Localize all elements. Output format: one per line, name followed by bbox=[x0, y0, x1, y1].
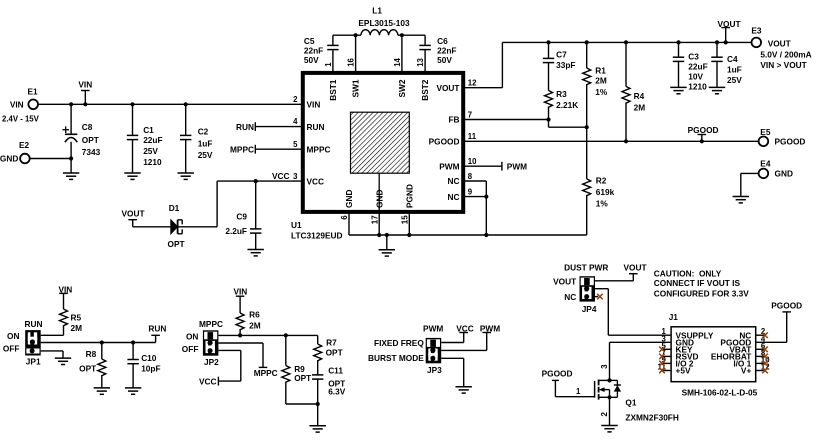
svg-text:E4: E4 bbox=[760, 158, 771, 168]
svg-text:PWM: PWM bbox=[423, 323, 443, 333]
svg-text:CAUTION: ONLY: CAUTION: ONLY bbox=[654, 269, 722, 279]
svg-text:50V: 50V bbox=[437, 55, 452, 65]
svg-text:PWM: PWM bbox=[439, 161, 459, 171]
svg-text:R8: R8 bbox=[86, 349, 97, 359]
svg-text:3: 3 bbox=[600, 364, 609, 369]
svg-text:10: 10 bbox=[468, 157, 477, 166]
svg-text:OPT: OPT bbox=[168, 239, 185, 249]
terminal E3 VOUT bbox=[751, 26, 811, 70]
svg-text:2M: 2M bbox=[71, 323, 83, 333]
svg-text:5.0V / 200mA: 5.0V / 200mA bbox=[760, 49, 811, 59]
ground under C4 bbox=[709, 87, 725, 93]
wire PGOOD net pin11 bbox=[464, 139, 759, 143]
svg-text:25V: 25V bbox=[143, 146, 158, 156]
svg-text:SW1: SW1 bbox=[351, 79, 361, 97]
svg-text:VIN > VOUT: VIN > VOUT bbox=[760, 60, 806, 70]
svg-text:V+: V+ bbox=[741, 366, 752, 376]
svg-text:BST1: BST1 bbox=[328, 79, 338, 101]
wire PWM stub pin10 bbox=[464, 161, 527, 171]
svg-text:MPPC: MPPC bbox=[307, 144, 331, 154]
wire RUN stub pin4 bbox=[236, 122, 302, 132]
svg-text:RUN: RUN bbox=[148, 324, 166, 334]
svg-text:22uF: 22uF bbox=[143, 135, 162, 145]
svg-text:VOUT: VOUT bbox=[717, 19, 740, 29]
U1 pin numbers top rotated bbox=[324, 57, 425, 66]
ground under C8 bbox=[63, 173, 79, 179]
svg-text:+5V: +5V bbox=[676, 366, 691, 376]
terminal E1 VIN bbox=[2, 87, 40, 124]
net symbol PGOOD at Q1 gate bbox=[542, 369, 595, 397]
svg-text:PGOOD: PGOOD bbox=[688, 125, 719, 135]
svg-text:VCC: VCC bbox=[456, 323, 474, 333]
U1 pin numbers left bbox=[293, 95, 298, 181]
terminal E4 GND bbox=[741, 158, 793, 196]
ground under C2 bbox=[178, 173, 194, 179]
wire JP3 middle pin PWM net bbox=[441, 323, 500, 350]
ground under R8 bbox=[94, 388, 110, 394]
capacitor C2 bbox=[180, 104, 213, 173]
svg-text:VCC: VCC bbox=[307, 176, 325, 186]
wire VOUT net top rail bbox=[464, 40, 752, 87]
ground under C11 R9 bbox=[310, 426, 326, 432]
svg-text:JP4: JP4 bbox=[582, 304, 597, 314]
svg-text:12: 12 bbox=[468, 79, 477, 88]
wire NC pins 8 9 bbox=[464, 181, 488, 237]
svg-text:C1: C1 bbox=[143, 125, 154, 135]
wire MPPC net JP2 middle bbox=[218, 343, 263, 367]
U1 pin numbers bottom rotated bbox=[340, 215, 409, 224]
svg-text:11: 11 bbox=[468, 132, 477, 141]
wire VIN net bbox=[38, 102, 302, 106]
capacitor C9 bbox=[225, 181, 261, 249]
svg-text:GND: GND bbox=[0, 154, 18, 164]
svg-text:2.4V - 15V: 2.4V - 15V bbox=[2, 115, 40, 124]
svg-text:C10: C10 bbox=[141, 353, 157, 363]
svg-text:ON: ON bbox=[7, 331, 19, 341]
svg-text:C8: C8 bbox=[82, 122, 93, 132]
wire JP2 bottom pin to VCC bbox=[199, 350, 241, 386]
op-amp U1 LTC3129EUD body bbox=[291, 73, 463, 241]
wire JP4 top pin to VOUT bbox=[595, 262, 647, 280]
wire to ground JP2 branch bbox=[317, 404, 319, 426]
svg-text:7: 7 bbox=[468, 110, 472, 119]
svg-text:2M: 2M bbox=[595, 76, 607, 86]
jumper JP1 bbox=[3, 319, 43, 367]
svg-text:4: 4 bbox=[293, 117, 298, 126]
svg-text:FB: FB bbox=[448, 115, 459, 125]
caution note text bbox=[654, 269, 749, 299]
svg-text:RUN: RUN bbox=[25, 319, 43, 329]
svg-text:9: 9 bbox=[468, 187, 473, 196]
svg-text:22nF: 22nF bbox=[304, 46, 323, 56]
capacitor C1 bbox=[127, 104, 163, 173]
ground under JP1 bbox=[55, 358, 71, 364]
J1 wire pin3 to Q1 drain bbox=[610, 342, 672, 380]
resistor R9 bbox=[282, 335, 320, 406]
wire JP2 top pin / R7 top bbox=[218, 333, 317, 344]
ground under JP3 bbox=[456, 387, 472, 393]
svg-text:2.21K: 2.21K bbox=[556, 100, 578, 110]
capacitor C10 bbox=[127, 343, 160, 388]
svg-text:2: 2 bbox=[293, 95, 298, 104]
svg-text:Q1: Q1 bbox=[625, 398, 636, 408]
svg-text:1%: 1% bbox=[596, 199, 609, 209]
svg-text:DUST PWR: DUST PWR bbox=[564, 262, 608, 272]
svg-text:GND: GND bbox=[344, 190, 354, 208]
svg-text:6: 6 bbox=[340, 215, 349, 220]
svg-text:1%: 1% bbox=[595, 87, 608, 97]
net symbol VOUT top bbox=[717, 19, 740, 43]
svg-text:C9: C9 bbox=[236, 212, 247, 222]
ground under Q1 bbox=[601, 426, 617, 432]
svg-text:5: 5 bbox=[293, 140, 298, 149]
svg-text:2.2uF: 2.2uF bbox=[225, 226, 247, 236]
svg-text:C5: C5 bbox=[304, 36, 315, 46]
svg-text:FIXED FREQ: FIXED FREQ bbox=[374, 338, 424, 348]
svg-text:1uF: 1uF bbox=[727, 65, 742, 75]
svg-text:VIN: VIN bbox=[307, 100, 321, 110]
svg-text:E2: E2 bbox=[19, 140, 30, 150]
svg-text:OPT: OPT bbox=[294, 373, 311, 383]
svg-text:50V: 50V bbox=[304, 55, 319, 65]
J1 nc stubs left bbox=[659, 347, 671, 374]
svg-text:PGOOD: PGOOD bbox=[429, 137, 460, 147]
net symbol VIN at R6 bbox=[233, 287, 247, 313]
wire JP4 middle pin to J1 pin1 bbox=[595, 289, 608, 336]
capacitor C7 bbox=[543, 42, 576, 90]
wire BST1-SW1 top bbox=[333, 33, 358, 37]
svg-text:3: 3 bbox=[293, 172, 298, 181]
svg-text:16: 16 bbox=[347, 57, 356, 66]
capacitor C11 bbox=[312, 365, 346, 404]
svg-text:R3: R3 bbox=[556, 89, 567, 99]
capacitor C6 bbox=[419, 35, 456, 71]
svg-text:7343: 7343 bbox=[82, 147, 101, 157]
svg-text:GND: GND bbox=[374, 190, 384, 208]
terminal E5 PGOOD bbox=[759, 127, 806, 146]
wire SW1 bbox=[355, 35, 357, 71]
jumper JP4 bbox=[553, 262, 608, 314]
ground under C9 bbox=[248, 250, 264, 256]
svg-text:PWM: PWM bbox=[480, 323, 500, 333]
svg-text:OPT: OPT bbox=[326, 348, 343, 358]
svg-text:C3: C3 bbox=[688, 52, 699, 62]
svg-text:R6: R6 bbox=[249, 310, 260, 320]
svg-text:NC: NC bbox=[564, 292, 576, 302]
wire E2 to C8 gnd bbox=[30, 156, 73, 173]
svg-text:CONNECT IF VOUT IS: CONNECT IF VOUT IS bbox=[654, 278, 741, 288]
svg-text:C6: C6 bbox=[437, 36, 448, 46]
svg-text:10V: 10V bbox=[688, 72, 703, 82]
svg-text:VOUT: VOUT bbox=[623, 262, 646, 272]
svg-text:VOUT: VOUT bbox=[768, 39, 791, 49]
svg-text:OPT: OPT bbox=[82, 135, 99, 145]
J1 nc stubs right bbox=[756, 332, 768, 373]
ground under E4 bbox=[733, 197, 749, 203]
net symbol RUN bbox=[148, 324, 166, 343]
svg-text:1210: 1210 bbox=[143, 157, 162, 167]
svg-text:1uF: 1uF bbox=[198, 138, 213, 148]
svg-text:L1: L1 bbox=[372, 5, 382, 15]
svg-text:NC: NC bbox=[448, 176, 460, 186]
svg-text:JP1: JP1 bbox=[26, 356, 41, 366]
svg-text:MPPC: MPPC bbox=[254, 368, 278, 378]
svg-text:CONFIGURED FOR 3.3V: CONFIGURED FOR 3.3V bbox=[654, 289, 749, 299]
svg-text:MPPC: MPPC bbox=[199, 319, 223, 329]
wire Q1 source to gnd bbox=[609, 397, 611, 425]
svg-text:C4: C4 bbox=[727, 54, 738, 64]
svg-text:OFF: OFF bbox=[3, 343, 20, 353]
wire JP3 top pin to VCC bbox=[441, 323, 474, 342]
svg-text:VOUT: VOUT bbox=[553, 277, 576, 287]
capacitor C8 bbox=[62, 104, 100, 158]
svg-text:22nF: 22nF bbox=[437, 46, 456, 56]
U1 pin labels bottom rotated bbox=[344, 184, 414, 208]
svg-text:2M: 2M bbox=[249, 320, 261, 330]
wire JP1 bottom pin to gnd bbox=[41, 351, 63, 358]
svg-text:8: 8 bbox=[468, 172, 473, 181]
ground under C3 bbox=[670, 87, 686, 93]
svg-text:PWM: PWM bbox=[507, 161, 527, 171]
svg-text:C7: C7 bbox=[556, 50, 567, 60]
resistor R7 bbox=[314, 337, 343, 375]
wire JP3 bottom pin to gnd bbox=[441, 358, 464, 386]
J1 wire pin4 PGOOD bbox=[756, 301, 802, 343]
svg-text:R2: R2 bbox=[596, 176, 607, 186]
wire RUN net JP1 middle bbox=[41, 340, 156, 344]
JP4 NC pin x bbox=[595, 294, 603, 300]
J1 wire pin1 bbox=[608, 334, 671, 336]
resistor R6 bbox=[236, 310, 261, 336]
svg-text:2: 2 bbox=[600, 412, 609, 417]
wire ground bus under U1 bbox=[349, 213, 587, 250]
svg-text:33pF: 33pF bbox=[556, 60, 575, 70]
resistor R5 bbox=[60, 309, 83, 335]
capacitor C5 bbox=[304, 35, 339, 71]
svg-text:C11: C11 bbox=[328, 365, 343, 375]
svg-text:J1: J1 bbox=[669, 312, 679, 322]
svg-text:VIN: VIN bbox=[233, 287, 247, 297]
svg-text:VOUT: VOUT bbox=[121, 209, 144, 219]
svg-text:VOUT: VOUT bbox=[436, 83, 459, 93]
svg-text:6.3V: 6.3V bbox=[328, 386, 346, 396]
svg-text:VIN: VIN bbox=[58, 284, 72, 294]
svg-text:13: 13 bbox=[416, 57, 425, 66]
svg-text:2M: 2M bbox=[634, 103, 646, 113]
svg-text:14: 14 bbox=[393, 57, 402, 66]
svg-text:1210: 1210 bbox=[688, 82, 707, 92]
svg-text:22uF: 22uF bbox=[688, 62, 707, 72]
svg-text:15: 15 bbox=[400, 215, 409, 224]
svg-text:SW2: SW2 bbox=[397, 79, 407, 97]
svg-text:25V: 25V bbox=[198, 150, 213, 160]
svg-text:MPPC: MPPC bbox=[230, 145, 254, 155]
connector J1 body bbox=[669, 312, 758, 398]
wire VCC net pin3 bbox=[179, 171, 303, 227]
diode D1 schottky bbox=[168, 203, 185, 249]
J1 pin numbers right bbox=[761, 327, 770, 371]
J1 pin labels right bbox=[711, 330, 752, 375]
svg-text:R7: R7 bbox=[326, 337, 337, 347]
svg-text:JP3: JP3 bbox=[427, 365, 442, 375]
resistor R2 bbox=[583, 127, 615, 235]
net symbol VIN at R5 bbox=[58, 284, 72, 309]
svg-text:PGOOD: PGOOD bbox=[542, 369, 573, 379]
svg-text:1: 1 bbox=[324, 62, 333, 67]
U1 pin labels left bbox=[307, 100, 331, 187]
svg-text:E1: E1 bbox=[28, 87, 39, 97]
U1 pin labels right bbox=[429, 83, 460, 202]
wire FB net pin7 bbox=[464, 117, 589, 129]
U1 pin labels top rotated bbox=[328, 79, 430, 101]
svg-text:LTC3129EUD: LTC3129EUD bbox=[291, 231, 343, 241]
svg-text:C2: C2 bbox=[198, 126, 209, 136]
svg-text:EPL3015-103: EPL3015-103 bbox=[358, 18, 410, 28]
svg-text:VCC: VCC bbox=[272, 171, 290, 181]
svg-text:1: 1 bbox=[576, 387, 581, 396]
ground under C1 bbox=[124, 173, 140, 179]
svg-text:ON: ON bbox=[186, 331, 198, 341]
svg-text:RUN: RUN bbox=[307, 122, 325, 132]
wire JP1 top pin bbox=[41, 334, 64, 336]
resistor R3 bbox=[545, 89, 579, 120]
svg-text:D1: D1 bbox=[169, 203, 180, 213]
net symbol PGOOD bbox=[688, 125, 719, 141]
svg-text:PGOOD: PGOOD bbox=[771, 301, 802, 311]
svg-text:U1: U1 bbox=[291, 220, 302, 230]
resistor R1 bbox=[583, 42, 608, 127]
net symbol MPPC down bbox=[254, 367, 278, 378]
svg-text:BST2: BST2 bbox=[420, 79, 430, 101]
svg-text:VIN: VIN bbox=[78, 80, 92, 90]
svg-text:BURST MODE: BURST MODE bbox=[368, 353, 424, 363]
terminal E2 GND bbox=[0, 140, 30, 164]
svg-text:25V: 25V bbox=[727, 75, 742, 85]
svg-text:OPT: OPT bbox=[79, 363, 96, 373]
svg-text:OFF: OFF bbox=[182, 344, 199, 354]
svg-text:PGND: PGND bbox=[404, 184, 414, 208]
svg-text:619k: 619k bbox=[596, 187, 615, 197]
ground under U1 bus bbox=[379, 250, 395, 256]
svg-text:ZXMN2F30FH: ZXMN2F30FH bbox=[625, 412, 678, 422]
svg-text:JP2: JP2 bbox=[204, 357, 219, 367]
svg-text:R4: R4 bbox=[634, 91, 645, 101]
resistor R4 bbox=[622, 42, 645, 141]
wire SW2 bbox=[400, 33, 404, 71]
svg-text:VIN: VIN bbox=[10, 100, 24, 110]
svg-text:VCC: VCC bbox=[199, 376, 217, 386]
jumper JP3 bbox=[368, 323, 443, 375]
wire VOUT to D1 anode bbox=[133, 226, 171, 228]
svg-text:GND: GND bbox=[775, 169, 793, 179]
capacitor C4 bbox=[711, 42, 742, 87]
resistor R8 bbox=[79, 343, 106, 388]
jumper JP2 bbox=[182, 319, 223, 367]
svg-text:E5: E5 bbox=[760, 127, 771, 137]
ground under C10 bbox=[125, 388, 141, 394]
U1 pin numbers right bbox=[468, 79, 477, 197]
capacitor C3 bbox=[673, 42, 708, 91]
wire SW2-BST2 top bbox=[402, 34, 425, 36]
transistor Q1 ZXMN2F30FH bbox=[595, 364, 679, 423]
inductor L1 bbox=[356, 5, 410, 35]
svg-text:R1: R1 bbox=[595, 66, 606, 76]
J1 pin numbers left bbox=[658, 327, 667, 371]
svg-text:PGOOD: PGOOD bbox=[775, 137, 806, 147]
svg-text:17: 17 bbox=[370, 215, 379, 224]
svg-text:RUN: RUN bbox=[236, 122, 254, 132]
wire MPPC stub pin5 bbox=[230, 145, 302, 155]
svg-text:E3: E3 bbox=[751, 26, 762, 36]
svg-text:10pF: 10pF bbox=[141, 364, 160, 374]
net symbol VIN bbox=[78, 80, 92, 105]
net symbol VOUT at D1 bbox=[121, 209, 144, 227]
svg-text:SMH-106-02-L-D-05: SMH-106-02-L-D-05 bbox=[682, 388, 758, 398]
svg-text:NC: NC bbox=[448, 192, 460, 202]
J1 pin labels left bbox=[676, 330, 714, 375]
svg-text:R5: R5 bbox=[71, 312, 82, 322]
